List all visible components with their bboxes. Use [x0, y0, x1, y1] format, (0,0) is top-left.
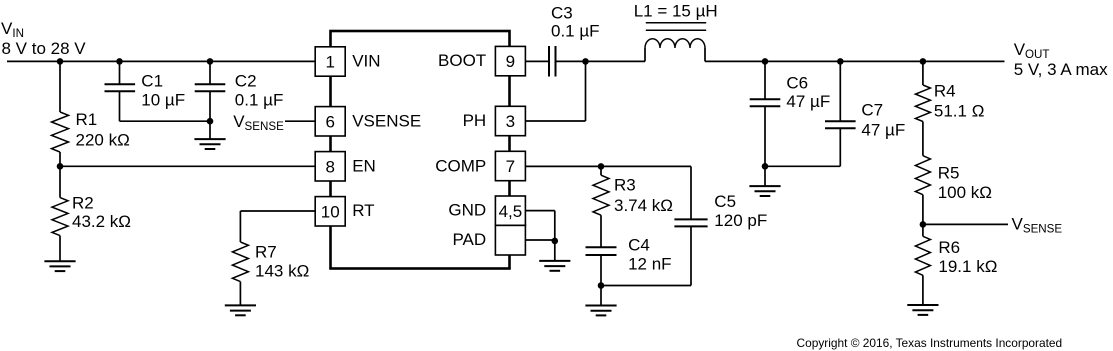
svg-text:C3: C3 [551, 3, 573, 22]
svg-text:7: 7 [506, 157, 515, 176]
svg-text:VSENSE: VSENSE [1012, 215, 1063, 236]
svg-text:R5: R5 [938, 164, 960, 183]
svg-text:47 µF: 47 µF [861, 121, 905, 140]
svg-text:10: 10 [321, 202, 340, 221]
svg-text:L1 = 15 µH: L1 = 15 µH [634, 2, 718, 21]
svg-text:8: 8 [325, 157, 334, 176]
svg-text:R2: R2 [72, 194, 94, 213]
svg-text:VSENSE: VSENSE [233, 112, 284, 133]
svg-text:10 µF: 10 µF [141, 90, 185, 109]
svg-text:VSENSE: VSENSE [352, 111, 421, 130]
svg-text:R4: R4 [934, 82, 956, 101]
svg-text:143 kΩ: 143 kΩ [255, 261, 309, 280]
svg-text:19.1 kΩ: 19.1 kΩ [938, 257, 997, 276]
svg-text:C7: C7 [861, 101, 883, 120]
svg-text:6: 6 [325, 112, 334, 131]
svg-text:PH: PH [463, 111, 487, 130]
svg-text:PAD: PAD [452, 230, 486, 249]
svg-text:R6: R6 [938, 238, 960, 257]
svg-text:1: 1 [325, 53, 334, 72]
svg-text:Copyright © 2016, Texas Instru: Copyright © 2016, Texas Instruments Inco… [797, 336, 1063, 350]
svg-text:8 V to 28 V: 8 V to 28 V [2, 39, 87, 58]
svg-text:51.1 Ω: 51.1 Ω [934, 102, 985, 121]
svg-text:3.74 kΩ: 3.74 kΩ [614, 196, 673, 215]
svg-text:C6: C6 [786, 73, 808, 92]
svg-text:0.1 µF: 0.1 µF [551, 22, 600, 41]
svg-text:4,5: 4,5 [499, 202, 523, 221]
svg-text:0.1 µF: 0.1 µF [235, 90, 284, 109]
svg-text:BOOT: BOOT [438, 51, 486, 70]
svg-text:47 µF: 47 µF [786, 92, 830, 111]
svg-text:GND: GND [448, 201, 486, 220]
svg-text:R1: R1 [76, 110, 98, 129]
svg-text:9: 9 [506, 52, 515, 71]
svg-text:12 nF: 12 nF [628, 255, 671, 274]
svg-text:120 pF: 120 pF [714, 211, 767, 230]
svg-text:5 V, 3 A max: 5 V, 3 A max [1014, 60, 1108, 79]
svg-text:220 kΩ: 220 kΩ [76, 131, 130, 150]
svg-text:3: 3 [506, 112, 515, 131]
svg-text:COMP: COMP [435, 156, 486, 175]
svg-text:C2: C2 [235, 72, 257, 91]
svg-text:RT: RT [352, 201, 374, 220]
svg-text:100 kΩ: 100 kΩ [938, 183, 992, 202]
svg-text:VOUT: VOUT [1014, 40, 1050, 61]
svg-text:C5: C5 [714, 192, 736, 211]
svg-text:R7: R7 [255, 243, 277, 262]
svg-text:VIN: VIN [1, 19, 24, 40]
svg-text:C4: C4 [628, 235, 650, 254]
svg-text:R3: R3 [614, 176, 636, 195]
svg-text:VIN: VIN [352, 52, 380, 71]
svg-text:EN: EN [352, 156, 376, 175]
svg-text:C1: C1 [141, 72, 163, 91]
svg-text:43.2 kΩ: 43.2 kΩ [72, 212, 131, 231]
